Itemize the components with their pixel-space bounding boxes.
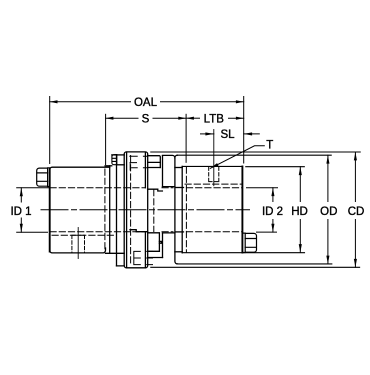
right hub set screw hidden hole	[209, 167, 219, 182]
svg-text:S: S	[142, 113, 150, 125]
OAL left extension line	[49, 97, 51, 164]
svg-text:ID 2: ID 2	[262, 206, 283, 218]
centerline	[41, 209, 250, 211]
ID1 bottom extension	[17, 231, 48, 233]
plate3 inner lines	[130, 189, 162, 232]
S left extension line	[105, 114, 107, 164]
right hub sleeve edge	[181, 166, 183, 252]
svg-text:OAL: OAL	[134, 97, 158, 109]
right hub bore hidden bottom	[186, 231, 242, 233]
dimension OAL	[50, 97, 244, 164]
cover cap inner lip line left	[126, 152, 128, 268]
bolt seat line	[117, 164, 124, 166]
S dimension line	[106, 117, 138, 119]
dimension CD	[354, 152, 356, 267]
sleeve top step	[175, 167, 182, 169]
ID2 bottom extension	[257, 231, 277, 233]
dimension ID 1	[17, 188, 50, 232]
leader line T	[210, 146, 264, 169]
svg-text:SL: SL	[220, 129, 235, 141]
ID2 dimension line	[272, 188, 274, 202]
center slot left edge	[162, 156, 164, 258]
cover/CD top edge with extension to CD dimension	[151, 151, 360, 153]
hidden bore dashes near slot	[162, 188, 173, 232]
set screw centerline / SL extension	[213, 130, 215, 186]
left hub set screw centerline	[77, 228, 79, 259]
flange/OD top edge + extension	[177, 154, 331, 156]
dimension ID 2	[247, 188, 278, 232]
svg-text:T: T	[266, 139, 273, 151]
left hub hidden face (dashed)	[104, 169, 106, 252]
left hub set screw hidden hole	[72, 235, 85, 253]
cover left plate	[116, 155, 118, 266]
hidden vertical in plate2	[130, 156, 132, 265]
hidden line center gap	[153, 190, 155, 232]
flange (OD part) left edge	[175, 155, 178, 264]
dimension S	[106, 114, 187, 164]
bore visible in window bottom	[176, 231, 184, 233]
svg-text:ID 1: ID 1	[10, 206, 31, 218]
hidden bolt top (cover)	[130, 156, 148, 168]
right hub bore hidden top	[186, 187, 242, 189]
cover top lip under bolt	[112, 154, 124, 156]
inner plate 2	[144, 152, 146, 268]
dimension OD	[327, 155, 329, 264]
seal plate top edge	[105, 165, 112, 167]
seal plate vertical	[109, 166, 111, 254]
right hub hidden face	[185, 167, 187, 252]
left hub bore hidden line bottom	[50, 231, 145, 233]
hex bolt left hub	[37, 168, 50, 187]
slot top/bottom lines	[148, 187, 175, 258]
dimension SL (arrows outside)	[201, 133, 260, 135]
cover/CD bottom edge with extension	[151, 266, 360, 268]
svg-text:HD: HD	[291, 206, 308, 218]
slot top corner	[163, 155, 175, 158]
grid element top box	[148, 156, 161, 168]
svg-text:CD: CD	[348, 206, 365, 218]
S/LTB shared extension line	[185, 114, 187, 162]
ID1 top extension	[17, 187, 50, 189]
OAL right extension line	[243, 97, 245, 164]
hex bolt right hub bottom	[242, 233, 256, 252]
svg-text:OD: OD	[320, 206, 337, 218]
right hub bottom edge + HD extension	[182, 252, 304, 254]
bore visible in window top	[176, 187, 184, 189]
grid element bottom box	[148, 233, 160, 252]
right hub keyway hidden	[185, 183, 242, 185]
cover bottom lip	[106, 253, 125, 266]
ID2 top extension	[247, 187, 278, 189]
sleeve bottom step	[175, 251, 182, 253]
dimension HD	[299, 167, 301, 253]
left hub body	[49, 169, 51, 252]
svg-text:LTB: LTB	[204, 113, 225, 125]
left hub bore hidden line top	[50, 187, 145, 189]
small hex bolt on cover top left	[112, 155, 117, 165]
right hub top edge + HD extension	[182, 165, 304, 167]
ID1 dimension line	[20, 188, 22, 202]
OAL dimension line	[50, 101, 131, 103]
flange/OD bottom edge + extension	[177, 263, 331, 265]
dimension LTB	[186, 117, 244, 119]
right hub right face	[241, 166, 243, 252]
hidden bolt bottom (cover)	[134, 251, 153, 264]
left hub keyway hidden line	[52, 234, 116, 236]
